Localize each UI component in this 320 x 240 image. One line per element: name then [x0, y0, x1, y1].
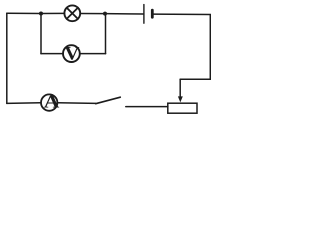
switch blade [96, 97, 121, 104]
lamp X stroke 2 [67, 8, 78, 19]
wire right horizontal to rheostat arrow [180, 78, 211, 80]
voltmeter branch left vertical [40, 13, 42, 53]
voltmeter branch right vertical [105, 14, 107, 54]
node junction dot left [39, 12, 43, 16]
wire top-left segment [7, 12, 41, 14]
wire battery to right edge [153, 13, 210, 15]
ammeter label A [44, 92, 60, 112]
rheostat arrowhead [178, 96, 183, 102]
wire ammeter to switch pivot [57, 102, 95, 105]
wire lamp to junction right [80, 13, 105, 15]
lamp circle [64, 5, 80, 21]
wire junction to battery [105, 13, 143, 15]
wire left vertical [6, 13, 8, 103]
voltmeter branch right horizontal [80, 53, 106, 55]
lamp X stroke 1 [67, 8, 78, 19]
ammeter circle [41, 94, 57, 110]
voltmeter circle [63, 45, 80, 62]
voltmeter label V [64, 44, 80, 65]
svg-text:A: A [44, 92, 60, 112]
wire bottom-left horizontal [7, 102, 41, 105]
node junction dot right [103, 12, 107, 16]
battery short plate [151, 10, 154, 17]
rheostat body rectangle [168, 103, 197, 113]
voltmeter branch left horizontal [41, 53, 63, 55]
battery long plate [143, 5, 145, 24]
wire switch to rheostat [126, 106, 168, 108]
svg-text:V: V [64, 44, 80, 65]
wire right vertical [209, 15, 211, 80]
rheostat arrow stem [179, 79, 181, 97]
wire junction to lamp [41, 12, 65, 14]
